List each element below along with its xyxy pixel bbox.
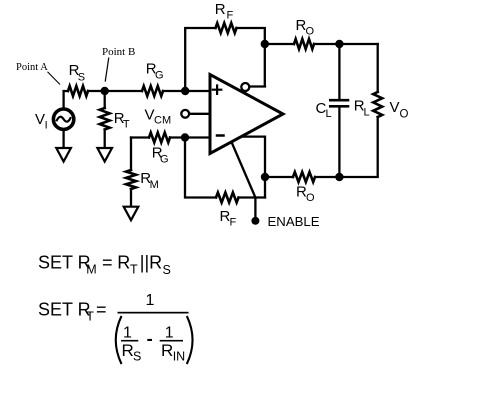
svg-text:O: O (400, 108, 409, 120)
wire RO bottom to load (315, 176, 339, 178)
ground below VI (56, 148, 71, 162)
source VI (53, 109, 73, 129)
wire to plus input (163, 90, 210, 92)
svg-text:IN: IN (173, 350, 186, 364)
svg-text:S: S (163, 263, 171, 277)
node plus input junction (181, 87, 189, 95)
svg-text:=: = (102, 253, 113, 273)
inner fraction 2 bar (160, 340, 183, 342)
node load top junction (335, 40, 343, 48)
capacitor CL bottom lead (338, 108, 340, 178)
svg-text:V: V (145, 107, 155, 124)
svg-text:ENABLE: ENABLE (268, 214, 320, 229)
wire RT to ground (104, 130, 106, 149)
svg-text:R: R (117, 253, 130, 273)
wire RO bottom left segment (265, 176, 293, 178)
svg-text:T: T (130, 263, 138, 277)
svg-text:O: O (306, 192, 315, 204)
capacitor CL top lead (338, 44, 340, 100)
op-amp plus pin symbol (213, 86, 221, 94)
op-amp minus pin symbol (217, 134, 224, 137)
node output top junction (261, 40, 269, 48)
svg-text:T: T (123, 118, 130, 130)
svg-text:V: V (35, 111, 45, 128)
leader line point A (48, 72, 61, 85)
svg-text:SET R: SET R (38, 300, 91, 320)
resistor RO top (294, 39, 314, 49)
wire RF bottom left vertical (185, 138, 216, 198)
node ENABLE terminal (251, 217, 259, 225)
ground below RM (124, 207, 139, 221)
node output bottom junction (261, 173, 269, 181)
resistor RF bottom (216, 193, 239, 203)
resistor RM (126, 170, 136, 189)
wire RF bottom (239, 196, 266, 198)
svg-text:G: G (160, 154, 169, 166)
wire RG bottom to minus input (170, 136, 210, 138)
svg-text:R: R (161, 341, 173, 360)
svg-text:L: L (326, 108, 332, 120)
resistor RS (68, 86, 88, 96)
left parenthesis (116, 316, 122, 364)
svg-text:M: M (86, 263, 96, 277)
wire RL branch top (377, 44, 379, 92)
svg-text:Point A: Point A (16, 62, 48, 73)
wire RT branch (104, 91, 106, 108)
svg-text:F: F (227, 10, 234, 22)
wire RM branch (130, 138, 132, 171)
wire bottom output stub (241, 137, 265, 198)
node point B junction (101, 87, 109, 95)
svg-text:G: G (155, 70, 164, 82)
svg-text:R: R (215, 1, 226, 18)
svg-text:Point B: Point B (102, 46, 135, 58)
resistor RG bottom (149, 133, 170, 143)
fraction main bar (118, 312, 189, 314)
formula SET RT = 1/((1/RS - 1/RIN)) (38, 292, 193, 364)
minus sign (147, 339, 152, 341)
op-amp U1 (210, 75, 283, 154)
wire minus input rail (131, 136, 149, 138)
wire RM to ground (130, 189, 132, 207)
wire RF top loop left vertical (185, 28, 215, 91)
svg-text:M: M (150, 179, 159, 191)
svg-text:I: I (45, 120, 48, 132)
wire RL branch bottom (339, 117, 377, 177)
resistor RG top (142, 86, 163, 96)
wire RF top right vertical (237, 28, 265, 86)
terminal VCM (189, 113, 210, 115)
inner fraction 1 bar (121, 340, 138, 342)
svg-text:T: T (86, 310, 94, 324)
svg-text:CM: CM (154, 115, 171, 127)
svg-text:1: 1 (146, 292, 155, 309)
resistor RO bottom (293, 172, 315, 182)
op-amp inverted output circle (241, 83, 249, 91)
wire point B segment (88, 90, 142, 92)
svg-text:SET R: SET R (38, 253, 91, 273)
formula SET RM = RT||RS (38, 253, 171, 278)
node minus input junction (181, 133, 189, 141)
svg-text:=: = (96, 300, 107, 320)
svg-text:O: O (306, 26, 315, 38)
ground below RT (97, 148, 112, 162)
wire output circle stub (249, 85, 265, 87)
resistor RT (100, 108, 110, 129)
wire VI to ground (62, 131, 64, 149)
svg-text:L: L (364, 107, 370, 119)
wire RO top (265, 43, 294, 45)
wire top input rail left segment with corner to VI (64, 91, 68, 108)
wire RO top to load (314, 43, 378, 45)
resistor RF top (216, 23, 237, 33)
resistor RL (373, 92, 382, 117)
leader line point B (105, 58, 109, 82)
svg-text:R: R (122, 341, 134, 360)
svg-text:S: S (133, 350, 141, 364)
svg-text:F: F (230, 217, 237, 229)
svg-text:V: V (390, 99, 400, 116)
right parenthesis (187, 316, 193, 364)
svg-text:S: S (78, 72, 85, 84)
capacitor CL plates (330, 99, 348, 102)
svg-text:1: 1 (123, 325, 132, 342)
node load bottom junction (335, 173, 343, 181)
enable pin diagonal wire (232, 142, 256, 218)
svg-text:1: 1 (165, 325, 174, 342)
svg-text:||R: ||R (140, 253, 162, 273)
